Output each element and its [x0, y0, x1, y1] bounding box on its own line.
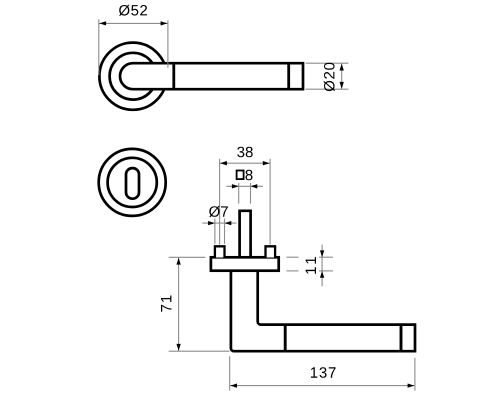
screw right (side view)	[266, 246, 276, 257]
dimension 11 label (rotated)	[306, 257, 316, 274]
dimension Ø20 bottom arrowhead	[340, 82, 344, 89]
dimension Ø7 extension line right	[224, 219, 226, 244]
dimension 137 line	[230, 385, 415, 387]
dimension 38 label	[237, 147, 252, 158]
dimension square-8 extension line left	[238, 183, 240, 204]
dimension 137 extension line right	[414, 358, 416, 391]
dimension 71 line	[178, 257, 180, 351]
grip joint line (front)	[172, 63, 175, 89]
dimension Ø7 extension line left	[214, 219, 216, 244]
dimension Ø20 extension line top	[306, 62, 349, 64]
dimension 71 extension line bottom	[169, 350, 230, 352]
dimension Ø7 right arrowhead (outside, pointing left)	[225, 221, 232, 225]
dimension 71 label (rotated)	[161, 296, 171, 312]
dimension Ø20 extension line bottom	[306, 88, 349, 90]
screw left (side view)	[215, 246, 225, 257]
dimension square-8 left arrowhead (outside, pointing right)	[232, 184, 239, 188]
dimension Ø20 label (rotated)	[324, 63, 335, 92]
dimension 137 label	[311, 367, 336, 378]
dimension square-8 symbol	[237, 171, 244, 180]
spindle (square bar, side view)	[240, 211, 251, 258]
dimension Ø20 line	[341, 63, 343, 89]
handle neck and grip (side view, L shape)	[231, 271, 415, 351]
dimension 38 left arrowhead	[220, 161, 227, 165]
dimension 38 line	[220, 162, 271, 164]
rosette (side view)	[211, 257, 279, 270]
dimension 11 bottom arrowhead (outside, pointing up)	[320, 271, 324, 278]
dimension 71 top arrowhead	[176, 258, 180, 265]
dimension 137 right arrowhead	[408, 383, 415, 387]
dimension 11 extension line top-left segment	[287, 256, 299, 258]
dimension 11 extension line bottom-left segment	[287, 270, 299, 272]
rosette inner circle	[110, 53, 157, 100]
lever grip (front view, covers rosette circles)	[120, 63, 303, 89]
dimension 71 bottom arrowhead	[176, 344, 180, 351]
dimension 11 extension line bottom-right segment	[319, 270, 333, 272]
dimension 11 extension line top-right segment	[319, 256, 333, 258]
dimension 137 left arrowhead	[230, 383, 237, 387]
dimension Ø7 line	[202, 222, 236, 224]
dimension square-8 right arrowhead (outside, pointing left)	[251, 184, 258, 188]
dimension Ø52 left arrowhead	[99, 21, 106, 25]
dimension 11 line	[321, 245, 323, 287]
dimension square-8 line	[226, 185, 263, 187]
dimension Ø52 extension line right	[167, 20, 169, 68]
dimension Ø52 right arrowhead	[161, 21, 168, 25]
keyhole slot	[126, 168, 139, 199]
escutcheon outer circle	[99, 149, 166, 216]
dimension 38 right arrowhead	[263, 161, 270, 165]
dimension square-8 extension line right	[250, 183, 252, 204]
grip joint line (side)	[284, 325, 287, 352]
dimension Ø52 extension line left	[98, 19, 100, 75]
grip end-cap joint line (front)	[287, 63, 290, 89]
dimension Ø7 label	[209, 206, 228, 217]
dimension Ø52 line	[99, 22, 168, 24]
escutcheon inner circle	[108, 158, 157, 207]
dimension 38 extension line right / screw axis right	[269, 159, 271, 245]
dimension square-8 label	[246, 170, 253, 181]
dimension 38 extension line left / screw axis left	[219, 159, 221, 245]
dimension 11 top arrowhead (outside, pointing down)	[320, 250, 324, 257]
grip end-cap joint line (side)	[400, 325, 403, 352]
dimension Ø52 label	[119, 5, 147, 16]
rosette outer circle	[99, 43, 166, 110]
dimension 137 extension line left	[229, 356, 231, 390]
dimension 71 extension line top	[169, 256, 206, 258]
dimension Ø20 top arrowhead	[340, 64, 344, 71]
dimension Ø7 left arrowhead (outside, pointing right)	[208, 221, 215, 225]
